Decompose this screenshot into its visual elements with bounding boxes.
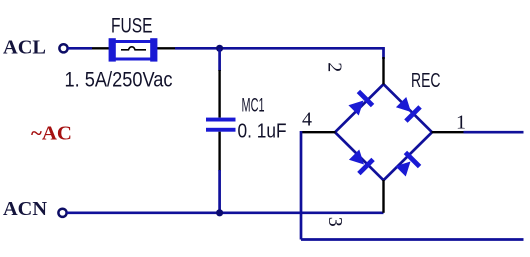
wire pin 1 output [464,131,524,134]
diode D3 bottom-left [347,148,375,176]
bridge pin 2 (top) [382,57,384,85]
svg-text:ACN: ACN [3,198,48,220]
junction dot top [216,45,223,52]
wire junction down to capacitor [218,48,221,71]
wire ACN to bridge pin 3 [67,211,384,214]
junction dot bottom [216,209,223,216]
fuse F1 body [109,38,158,61]
wire ACL to fuse [68,47,93,50]
wire fuse to bridge top [175,47,385,50]
svg-text:MC1: MC1 [242,95,265,117]
diode D1 top-left [347,90,375,118]
capacitor MC1 top pin [218,70,220,118]
terminal ACN [58,209,66,217]
wire pin 4 down [300,131,303,240]
svg-text:ACL: ACL [3,37,46,59]
svg-text:1. 5A/250Vac: 1. 5A/250Vac [65,69,173,92]
bridge rectifier REC body [335,84,432,180]
svg-text:1: 1 [456,112,466,134]
bridge pin 1 (right) [432,131,464,133]
capacitor MC1 plates [206,118,236,132]
svg-text:3: 3 [324,217,346,227]
fuse F1 left pin [92,47,110,49]
svg-text:REC: REC [411,69,441,92]
capacitor MC1 bottom pin [218,132,220,171]
bridge pin 4 (left) [301,131,336,133]
wire corner down to bridge pin 2 [382,47,385,59]
diode D2 top-right [394,95,422,123]
bridge pin 3 (bottom) [382,180,384,213]
svg-text:~AC: ~AC [31,123,72,145]
terminal ACL [59,44,67,52]
svg-text:FUSE: FUSE [111,15,153,38]
svg-text:0. 1uF: 0. 1uF [238,121,287,143]
wire capacitor to bottom rail [218,170,221,213]
svg-text:4: 4 [302,109,312,131]
wire bottom output rail [301,238,524,241]
svg-text:2: 2 [323,62,345,72]
diode D4 bottom-right [394,151,422,179]
fuse F1 right pin [156,47,175,49]
